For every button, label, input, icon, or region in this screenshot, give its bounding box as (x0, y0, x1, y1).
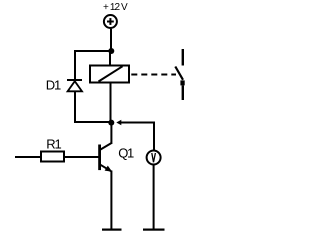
svg-text:R1: R1 (46, 136, 61, 151)
svg-text:+ 12 V: + 12 V (103, 2, 128, 13)
svg-text:D1: D1 (46, 78, 61, 93)
svg-text:Q1: Q1 (118, 146, 134, 161)
